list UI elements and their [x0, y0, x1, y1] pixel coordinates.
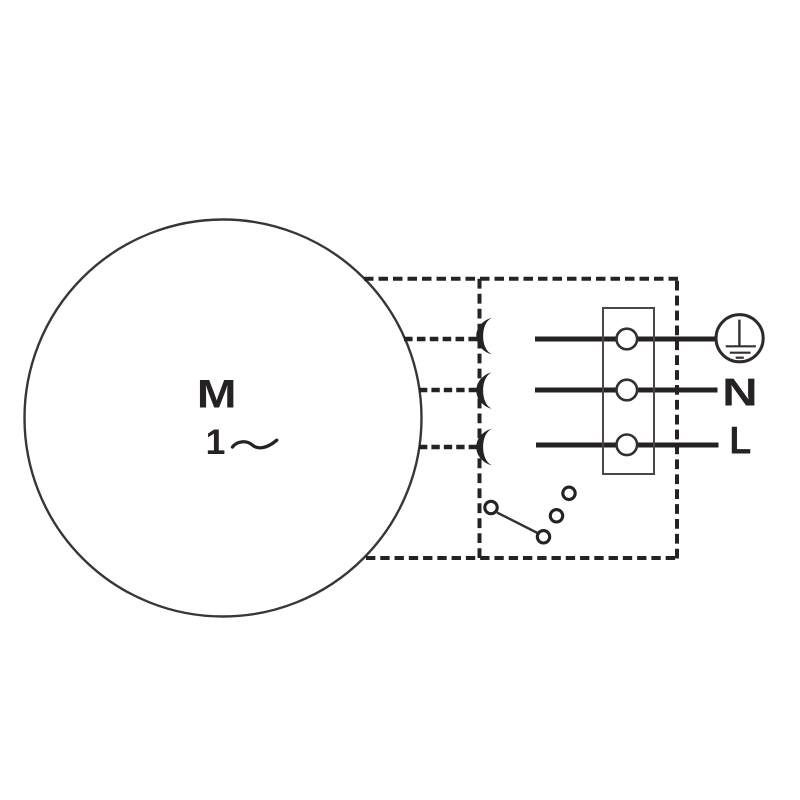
terminal block outline	[603, 308, 654, 474]
terminal N	[617, 380, 638, 401]
terminal PE	[617, 329, 638, 350]
control box dashed enclosure bottom edge	[366, 556, 675, 560]
connector contact 2 (crescent)	[476, 372, 491, 409]
dashed wire motor lead 2 (middle)	[419, 388, 477, 392]
dashed wire motor lead 1 (top)	[404, 337, 477, 341]
motor M1 AC waveform tilde	[233, 440, 277, 448]
protective earth symbol circle	[716, 315, 763, 362]
svg-text:N: N	[722, 372, 758, 415]
speed selector switch position contact 3	[563, 487, 575, 499]
speed selector switch position contact 1	[537, 531, 549, 543]
speed selector switch pivot contact	[485, 501, 497, 513]
speed selector switch position contact 2	[550, 510, 562, 522]
dashed wire motor lead 3 (bottom)	[419, 445, 477, 449]
wire PE (top solid)	[535, 337, 717, 342]
protective earth symbol bar 1	[726, 345, 756, 347]
wire N (middle solid)	[535, 388, 718, 393]
speed selector switch lever	[497, 513, 539, 534]
control box dashed enclosure top edge	[364, 277, 678, 281]
control box internal partition dashed line	[478, 279, 482, 558]
control box dashed enclosure right edge	[675, 281, 679, 559]
wire L (bottom solid)	[536, 443, 719, 448]
protective earth symbol stem	[738, 320, 740, 347]
connector contact 3 (crescent)	[476, 429, 491, 466]
svg-text:1: 1	[206, 422, 226, 462]
protective earth symbol bar 3	[736, 357, 744, 359]
connector contact 1 (crescent)	[476, 318, 491, 355]
protective earth symbol bar 2	[730, 352, 751, 354]
motor M1 body (circle)	[25, 220, 422, 617]
terminal L	[617, 435, 638, 456]
svg-text:L: L	[729, 420, 751, 463]
svg-text:M: M	[197, 373, 237, 417]
